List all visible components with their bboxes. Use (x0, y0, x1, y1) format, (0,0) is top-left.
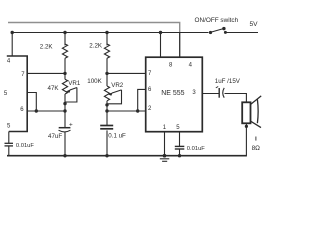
wire R2 to VR2 (106, 58, 108, 86)
svg-text:2: 2 (148, 106, 152, 112)
wire C1 to ground rail (64, 132, 66, 156)
node tie loop U1 (35, 109, 38, 112)
wire R1 column from rail (64, 33, 66, 46)
svg-text:4: 4 (189, 62, 193, 68)
wiper arrow VR1 (70, 88, 77, 90)
svg-text:NE 555: NE 555 (161, 90, 184, 97)
wire C3 to rail (179, 149, 181, 156)
svg-text:5: 5 (4, 91, 8, 97)
wire pin4 U2 to rail (179, 33, 181, 58)
label 8 ohm (255, 137, 257, 141)
wire VR2 wiper loop (107, 90, 122, 104)
capacitor C4 1uF/15V (218, 88, 220, 98)
wire VR1 wiper loop (65, 88, 77, 103)
svg-text:2.2K: 2.2K (89, 43, 103, 50)
svg-text:47K: 47K (48, 85, 60, 92)
svg-text:4: 4 (7, 58, 11, 64)
resistor VR1 47K potentiometer (62, 79, 67, 94)
op-amp U2 NE555 (146, 57, 203, 132)
wiper arrow VR2 (112, 90, 121, 93)
svg-text:100K: 100K (87, 78, 102, 85)
resistor VR2 100K potentiometer (104, 86, 109, 101)
capacitor C2 0.1uF (100, 125, 113, 127)
svg-text:3: 3 (192, 90, 196, 96)
svg-text:7: 7 (148, 71, 152, 77)
wire pin3 U2 to C4 (202, 93, 219, 95)
resistor R1 2.2K (62, 44, 67, 58)
svg-text:2.2K: 2.2K (40, 44, 54, 51)
node C3-rail (178, 154, 181, 157)
wire pin1 U2 to ground (164, 132, 166, 156)
wire R2 column from rail (106, 33, 108, 46)
wire U2 pin6-pin2 tie (138, 89, 146, 111)
node rail-R1 (63, 31, 66, 34)
svg-text:VR1: VR1 (68, 80, 81, 87)
node rail-R2 (105, 31, 108, 34)
op-amp U1 (left timer IC, box open at left) (7, 56, 27, 132)
wire pin6 U1 to cap junction (27, 110, 65, 112)
node pin2-VR2 column (105, 109, 108, 112)
svg-text:VR2: VR2 (111, 82, 124, 89)
wire pin8 U2 to rail (160, 33, 162, 58)
switch S1 ON/OFF (209, 31, 212, 34)
capacitor C3 0.01uF (175, 145, 185, 147)
svg-text:8: 8 (169, 62, 173, 68)
node pin7-R1 (63, 72, 66, 75)
svg-text:47uF: 47uF (48, 133, 62, 140)
wire speaker to rail (245, 123, 247, 155)
wire pin2 U2 (107, 110, 146, 112)
node pin6-C1 (63, 109, 66, 112)
svg-text:6: 6 (20, 107, 24, 113)
wire VR2 to C2 (106, 101, 108, 126)
node C2-rail (105, 154, 108, 157)
svg-text:6: 6 (148, 87, 152, 93)
wire C5 to rail (8, 146, 10, 156)
wire VR1 to C1 (64, 94, 66, 127)
svg-text:5: 5 (176, 125, 180, 131)
ground (160, 158, 170, 160)
resistor R2 2.2K (104, 44, 109, 58)
frame border (gray) (8, 23, 180, 58)
node VR2 wiper junction (105, 103, 108, 106)
svg-text:0.01uF: 0.01uF (16, 143, 35, 149)
node pin1-rail (163, 154, 167, 158)
wire C2 to rail (106, 130, 108, 155)
svg-text:7: 7 (21, 72, 25, 78)
svg-text:0.1 uF: 0.1 uF (108, 132, 126, 139)
node tie-pin2 (136, 109, 139, 112)
wire pin7 U1 to R1 column (27, 72, 65, 74)
wire pin5 U1 to C5 (8, 132, 10, 144)
node speaker bottom (245, 125, 248, 128)
wire top 5V rail left of switch (12, 32, 208, 34)
node C1-rail (63, 154, 66, 157)
svg-text:0.01uF: 0.01uF (187, 146, 206, 152)
svg-text:5V: 5V (250, 21, 259, 28)
wire pin5 U2 to C3 (179, 132, 181, 147)
node rail-pin4 left IC (11, 31, 14, 34)
wire U1 tie loop (pin at y92) (27, 93, 36, 112)
svg-text:ON/OFF switch: ON/OFF switch (195, 17, 239, 24)
wire top 5V rail right of switch (226, 32, 258, 34)
speaker LS1 (242, 102, 250, 123)
svg-text:1uF /15V: 1uF /15V (215, 78, 241, 85)
svg-text:8Ω: 8Ω (252, 145, 261, 152)
svg-text:5: 5 (7, 124, 11, 130)
wire R1 to VR1 (64, 58, 66, 79)
node pin7-R2 (105, 72, 108, 75)
capacitor C5 0.01uF (5, 142, 14, 144)
svg-text:1: 1 (163, 125, 167, 131)
wire C4 to speaker (225, 94, 247, 103)
node rail-pin8 (159, 31, 162, 34)
wire pin7 U2 to R2 column (107, 72, 146, 74)
wire pin4 left IC to rail (11, 33, 13, 57)
wire bottom ground rail (7, 155, 247, 157)
node VR1 wiper junction (63, 102, 66, 105)
